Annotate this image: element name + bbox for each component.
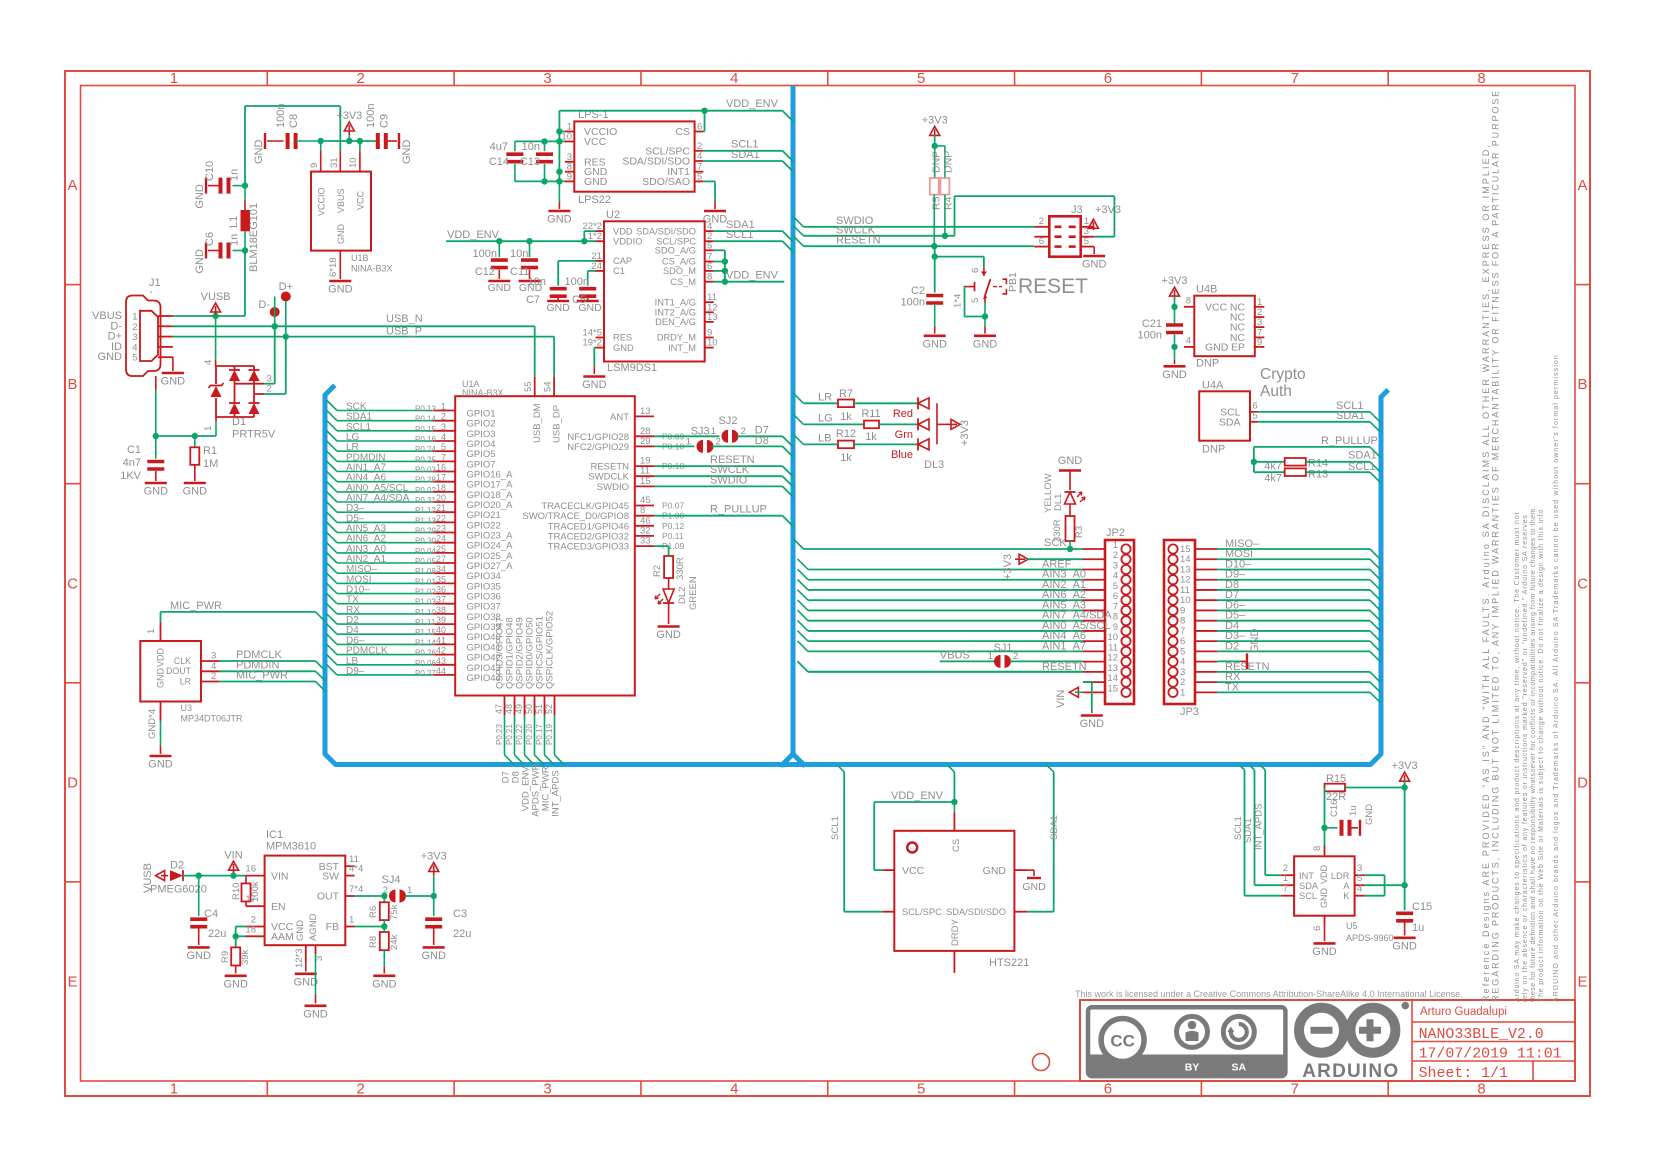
svg-text:R12: R12 <box>836 428 856 440</box>
svg-text:10n: 10n <box>510 248 528 260</box>
svg-text:7*4: 7*4 <box>349 884 363 895</box>
connector JP2 <box>1105 540 1134 704</box>
svg-text:D+: D+ <box>279 281 293 293</box>
svg-text:Crypto: Crypto <box>1260 366 1306 383</box>
U5 ground pin <box>1324 916 1326 926</box>
svg-text:GND: GND <box>1162 369 1187 381</box>
JP3 pin 6 <box>1168 637 1177 646</box>
svg-text:INT_M: INT_M <box>668 343 696 353</box>
svg-text:USB_P: USB_P <box>386 326 422 338</box>
svg-text:SCK: SCK <box>1044 537 1067 549</box>
resistor R2 330R <box>664 556 673 578</box>
svg-text:R1: R1 <box>203 445 217 457</box>
IC HTS221 humidity sensor <box>894 831 1014 951</box>
capacitor C13 10n <box>544 141 546 151</box>
wire VBUS from J1 <box>173 315 245 317</box>
svg-text:1k: 1k <box>840 452 852 464</box>
svg-text:100k: 100k <box>250 881 261 902</box>
svg-text:1: 1 <box>407 885 412 896</box>
svg-text:EP: EP <box>1231 341 1245 353</box>
svg-text:35: 35 <box>436 574 446 584</box>
svg-text:Sheet: 1/1: Sheet: 1/1 <box>1419 1066 1508 1082</box>
resistor R1 1M <box>194 436 196 447</box>
svg-text:+3V3: +3V3 <box>1095 204 1121 216</box>
svg-text:K: K <box>1343 891 1350 901</box>
svg-text:25: 25 <box>436 544 446 554</box>
wire SCL1 from U4A <box>1258 411 1370 413</box>
pin 3 of D1 <box>235 383 265 385</box>
svg-text:2: 2 <box>267 384 272 395</box>
svg-text:1: 1 <box>203 426 214 431</box>
svg-text:44: 44 <box>436 666 446 676</box>
svg-text:P1.11: P1.11 <box>415 618 436 627</box>
svg-text:SCL/SPC: SCL/SPC <box>902 907 942 917</box>
svg-text:APDS-9960: APDS-9960 <box>1346 933 1394 943</box>
svg-text:2: 2 <box>1013 651 1018 662</box>
wire R_PULLUP from U1A <box>654 515 783 517</box>
svg-text:SDO_A/G: SDO_A/G <box>655 246 696 256</box>
svg-text:2: 2 <box>741 426 746 437</box>
svg-text:1n: 1n <box>229 169 241 181</box>
wire JP3 pin4 to ground <box>1217 660 1240 662</box>
JP3 pin 9 <box>1168 606 1177 615</box>
svg-text:DRDY: DRDY <box>950 918 961 946</box>
wire D+ to D1 pin2 <box>285 301 287 337</box>
svg-text:P1.08: P1.08 <box>415 567 436 576</box>
svg-text:16: 16 <box>436 463 446 473</box>
svg-text:VDD_ENV: VDD_ENV <box>726 270 779 282</box>
+3V3 into JP2 pin2 <box>1019 554 1028 564</box>
svg-text:C6: C6 <box>204 232 216 246</box>
svg-text:VDD: VDD <box>156 647 166 667</box>
wire LG to R11 <box>793 414 804 425</box>
LED DL3 red <box>918 398 929 409</box>
svg-text:SWDIO: SWDIO <box>710 474 748 486</box>
svg-text:GND: GND <box>401 140 413 165</box>
VIN power arrow <box>233 871 235 876</box>
svg-text:P0.28: P0.28 <box>415 476 436 485</box>
svg-text:P0.11: P0.11 <box>662 531 684 541</box>
svg-text:VCC: VCC <box>356 190 366 210</box>
svg-text:21: 21 <box>436 503 446 513</box>
bus main <box>325 89 1387 765</box>
wire SDA1 from U4A <box>1258 421 1370 423</box>
svg-text:4: 4 <box>441 432 446 442</box>
svg-text:J3: J3 <box>1071 204 1083 216</box>
VUSB arrow <box>156 871 165 881</box>
svg-text:GND: GND <box>1249 629 1261 654</box>
svg-text:SDA1: SDA1 <box>1243 818 1254 843</box>
svg-text:MIC_PWR: MIC_PWR <box>236 670 288 682</box>
svg-text:52: 52 <box>544 704 554 714</box>
svg-text:GND: GND <box>223 978 248 990</box>
wire R_PULLUP <box>1254 446 1370 448</box>
svg-text:VCC: VCC <box>584 136 607 148</box>
JP3 pin 15 <box>1168 544 1177 553</box>
svg-text:1: 1 <box>349 915 354 926</box>
wire SCL1 to HTS <box>837 765 844 772</box>
svg-text:12*3: 12*3 <box>294 948 305 968</box>
svg-text:VDD: VDD <box>613 226 633 236</box>
svg-text:22u: 22u <box>453 928 471 940</box>
svg-text:54: 54 <box>543 381 554 392</box>
connector J3 SWD header <box>1049 216 1080 256</box>
svg-text:NINA-B3X: NINA-B3X <box>462 388 504 398</box>
svg-text:SJ3: SJ3 <box>691 426 710 438</box>
svg-text:GND: GND <box>186 950 211 962</box>
svg-text:SCL1: SCL1 <box>726 229 754 241</box>
svg-text:100n: 100n <box>565 276 589 288</box>
svg-text:A: A <box>67 177 77 194</box>
svg-text:GND*4: GND*4 <box>147 709 158 739</box>
svg-text:1: 1 <box>1283 873 1288 884</box>
svg-text:100n: 100n <box>473 248 497 260</box>
svg-text:3: 3 <box>543 70 551 87</box>
U1A left pins and wires <box>433 410 455 412</box>
svg-text:4: 4 <box>1357 884 1362 895</box>
svg-text:2: 2 <box>716 437 721 448</box>
svg-text:15: 15 <box>640 476 651 487</box>
svg-text:7: 7 <box>1291 1081 1299 1098</box>
svg-text:1u: 1u <box>1348 805 1359 816</box>
svg-text:P0.16: P0.16 <box>415 435 436 444</box>
svg-text:P0.04: P0.04 <box>415 547 436 556</box>
svg-text:P0.19: P0.19 <box>545 724 554 745</box>
svg-text:SW: SW <box>322 870 339 882</box>
wire JP2 pin13 RESETN <box>808 671 1083 673</box>
svg-text:P0.13: P0.13 <box>415 405 436 414</box>
svg-text:JP3: JP3 <box>1180 706 1199 718</box>
svg-text:GND: GND <box>336 224 346 245</box>
svg-text:19*2: 19*2 <box>582 338 602 349</box>
wire LR to R7 <box>793 393 804 404</box>
svg-text:5: 5 <box>917 1081 925 1098</box>
svg-text:5: 5 <box>441 442 446 452</box>
svg-text:GND: GND <box>1022 881 1046 893</box>
svg-text:5: 5 <box>1084 236 1089 247</box>
svg-text:D: D <box>67 774 78 791</box>
svg-text:C2: C2 <box>911 285 925 297</box>
svg-text:VCCIO: VCCIO <box>317 187 327 216</box>
svg-text:IC1: IC1 <box>266 829 283 841</box>
IC LPS22 pressure sensor <box>574 121 694 191</box>
IC U4A crypto auth <box>1199 391 1250 440</box>
svg-text:SCL1: SCL1 <box>830 816 841 840</box>
IC IC1 MPM3610 regulator <box>265 856 346 946</box>
svg-text:18: 18 <box>436 483 446 493</box>
svg-text:INT1_A/G: INT1_A/G <box>655 297 696 307</box>
svg-text:6: 6 <box>1104 1081 1112 1098</box>
svg-text:34: 34 <box>436 564 446 574</box>
+3V3 from regulator <box>433 876 435 896</box>
ground under C21 <box>1174 347 1176 360</box>
svg-text:1n: 1n <box>229 234 241 246</box>
svg-text:1: 1 <box>170 70 178 87</box>
svg-text:R13: R13 <box>1308 469 1328 481</box>
svg-text:4: 4 <box>730 1081 738 1098</box>
svg-text:VBUS: VBUS <box>336 188 346 213</box>
capacitor C14 4u7 <box>514 141 516 151</box>
svg-text:P1.15: P1.15 <box>415 628 436 637</box>
svg-text:D8: D8 <box>755 435 769 447</box>
HTS DRDY pin <box>953 951 955 973</box>
VIN arrow at JP2 pin15 <box>1069 687 1078 697</box>
svg-text:C: C <box>67 575 78 592</box>
svg-text:P1.10: P1.10 <box>415 608 436 617</box>
capacitor C3 22u <box>433 896 435 916</box>
svg-text:1: 1 <box>686 437 691 448</box>
svg-text:2: 2 <box>383 885 388 896</box>
IC U3 MP34DT06JTR microphone <box>160 623 162 642</box>
svg-text:100n: 100n <box>275 104 287 128</box>
wire JP2 pin14 to ground <box>1083 681 1092 683</box>
connector J1 mini-USB <box>126 296 161 377</box>
JP2 pin 4 <box>1121 575 1130 584</box>
svg-text:+3V3: +3V3 <box>922 114 948 126</box>
svg-text:VCC: VCC <box>1205 302 1228 314</box>
ferrite L1 BLM18EG101 <box>244 251 246 274</box>
svg-text:C1: C1 <box>613 266 625 276</box>
svg-text:1M: 1M <box>203 458 218 470</box>
svg-text:VIN: VIN <box>271 870 289 882</box>
svg-text:CS_M: CS_M <box>670 277 696 287</box>
svg-text:SDO_M: SDO_M <box>663 266 696 276</box>
svg-text:49: 49 <box>514 704 524 714</box>
resistor R6 75k <box>383 896 385 902</box>
svg-text:NFC2/GPIO29: NFC2/GPIO29 <box>567 442 629 453</box>
svg-text:This work is licensed under a: This work is licensed under a Creative C… <box>1075 989 1463 999</box>
svg-text:7: 7 <box>1283 884 1288 895</box>
svg-text:USB_N: USB_N <box>386 313 423 325</box>
svg-text:P1.01: P1.01 <box>415 577 436 586</box>
IC U1A NINA-B3X module <box>455 396 635 695</box>
wire LDR K tie <box>1365 874 1385 876</box>
svg-text:GND: GND <box>613 343 634 353</box>
svg-text:EN: EN <box>271 901 286 913</box>
wire SCK to JP2 <box>793 539 804 550</box>
svg-text:GND: GND <box>144 486 169 498</box>
capacitor C21 100n <box>1174 307 1176 324</box>
svg-text:Auth: Auth <box>1260 383 1292 400</box>
svg-text:SJ1: SJ1 <box>994 642 1013 654</box>
svg-text:2: 2 <box>441 412 446 422</box>
sa circle <box>1223 1016 1254 1047</box>
svg-text:P0.29: P0.29 <box>415 527 436 536</box>
svg-text:24k: 24k <box>389 934 400 950</box>
JP3 pin 1 <box>1168 688 1177 697</box>
svg-text:LB: LB <box>818 432 831 444</box>
svg-text:R10: R10 <box>231 883 242 900</box>
svg-text:1KV: 1KV <box>120 470 141 482</box>
svg-text:C13: C13 <box>520 156 540 168</box>
svg-text:3: 3 <box>441 422 446 432</box>
wire U2 SDO/CS tie to VDD_ENV <box>714 249 725 251</box>
capacitor C1 4n7 1KV <box>155 436 157 459</box>
svg-text:SDA/SDI/SDO: SDA/SDI/SDO <box>636 226 696 236</box>
JP2 pin 14 <box>1121 678 1130 687</box>
svg-text:RESETN: RESETN <box>836 235 881 247</box>
svg-text:+3V3: +3V3 <box>1002 554 1014 580</box>
svg-text:GND: GND <box>303 1008 328 1020</box>
svg-text:75k: 75k <box>389 904 400 920</box>
svg-text:5: 5 <box>697 171 702 182</box>
svg-text:GND: GND <box>1312 946 1337 958</box>
svg-text:C4: C4 <box>204 908 218 920</box>
capacitor C4 22u <box>198 876 200 917</box>
svg-text:GND: GND <box>584 176 608 188</box>
capacitor C7 10n <box>558 260 595 262</box>
capacitor C10 1n <box>233 185 246 187</box>
wire +3V3 rail at U1B <box>320 140 378 142</box>
svg-text:39: 39 <box>436 615 446 625</box>
svg-text:DOUT: DOUT <box>166 666 192 676</box>
svg-text:LSM9DS1: LSM9DS1 <box>607 362 657 374</box>
IC U1B NINA-B3X power pins <box>311 172 371 251</box>
JP2 pin 8 <box>1121 616 1130 625</box>
svg-text:GND: GND <box>1082 259 1107 271</box>
svg-text:VDD: VDD <box>1319 864 1329 884</box>
jumper SJ3 <box>654 445 695 447</box>
svg-text:8: 8 <box>1186 296 1191 307</box>
wire SDA1 from LPS <box>703 160 782 162</box>
cc circle <box>1101 1019 1144 1062</box>
svg-text:6: 6 <box>1104 70 1112 87</box>
svg-text:+3V3: +3V3 <box>421 851 447 863</box>
svg-text:SDA: SDA <box>1299 881 1319 891</box>
testpoint D+ <box>281 292 291 302</box>
svg-text:R6: R6 <box>368 906 379 918</box>
svg-text:GND: GND <box>328 284 353 296</box>
svg-text:GND: GND <box>194 249 206 274</box>
wire VCC AAM tie <box>236 926 246 928</box>
svg-text:100n: 100n <box>1138 330 1162 342</box>
svg-text:7: 7 <box>441 452 446 462</box>
svg-text:U4A: U4A <box>1202 379 1224 391</box>
U1A right pins <box>635 415 654 417</box>
LED DL1 YELLOW <box>1065 492 1076 504</box>
svg-text:GND: GND <box>194 184 206 209</box>
wire RESETN to J3 and PB1 <box>793 236 804 247</box>
svg-text:INT2_A/G: INT2_A/G <box>655 308 696 318</box>
svg-text:D-: D- <box>258 299 270 311</box>
svg-text:GND: GND <box>156 668 166 689</box>
svg-text:U1B: U1B <box>351 253 369 263</box>
JP2 pin 7 <box>1121 606 1130 615</box>
capacitor C11 10n <box>529 241 531 257</box>
svg-text:B: B <box>1577 376 1587 393</box>
svg-text:+3V3: +3V3 <box>1392 760 1418 772</box>
svg-text:Grn: Grn <box>895 429 913 441</box>
svg-text:AAM: AAM <box>271 931 294 943</box>
svg-text:SDA1: SDA1 <box>1336 410 1365 422</box>
capacitor C9 100n <box>376 133 380 149</box>
svg-text:5: 5 <box>132 353 137 364</box>
svg-text:P0.03: P0.03 <box>415 466 436 475</box>
wire R15 to C16 and U5 VDD <box>1324 788 1326 828</box>
svg-text:39k: 39k <box>240 949 251 965</box>
svg-text:SWDIO: SWDIO <box>597 482 629 493</box>
svg-text:SDA1: SDA1 <box>1348 450 1377 462</box>
svg-text:U2: U2 <box>606 209 620 221</box>
svg-text:JP2: JP2 <box>1106 527 1125 539</box>
svg-text:4k7: 4k7 <box>1264 461 1282 473</box>
wire USB_N <box>173 325 535 327</box>
svg-text:16: 16 <box>245 864 256 875</box>
svg-text:40: 40 <box>436 625 446 635</box>
capacitor C8 100n <box>267 140 284 142</box>
svg-text:1: 1 <box>988 651 993 662</box>
svg-text:A: A <box>1577 177 1587 194</box>
svg-text:6: 6 <box>970 268 981 273</box>
JP3 pin 11 <box>1168 585 1177 594</box>
svg-text:C14: C14 <box>489 156 509 168</box>
svg-text:GND: GND <box>547 214 572 226</box>
wire INT_APDS to U5 <box>1260 765 1265 770</box>
svg-text:9: 9 <box>567 171 572 182</box>
svg-text:R5: R5 <box>931 196 943 210</box>
JP3 pin 13 <box>1168 565 1177 574</box>
revision circle <box>1033 1054 1050 1071</box>
svg-text:VIN: VIN <box>224 850 242 862</box>
svg-text:VDD_ENV: VDD_ENV <box>726 98 779 110</box>
svg-text:NANO33BLE_V2.0: NANO33BLE_V2.0 <box>1419 1027 1544 1043</box>
svg-text:ANT: ANT <box>610 412 629 423</box>
svg-text:17/07/2019 11:01: 17/07/2019 11:01 <box>1419 1047 1562 1063</box>
wire VCC rail <box>515 140 565 142</box>
capacitor C16 1u <box>1325 827 1338 829</box>
svg-text:LPS22: LPS22 <box>578 194 611 206</box>
svg-text:VIN: VIN <box>1055 690 1067 708</box>
jumper SJ4 <box>389 890 395 903</box>
capacitor C15 1u <box>1404 885 1406 910</box>
svg-text:PRTR5V: PRTR5V <box>232 429 276 441</box>
svg-text:R_PULLUP: R_PULLUP <box>1321 435 1378 447</box>
wire A to +3V3 <box>1365 884 1405 886</box>
svg-text:1: 1 <box>711 426 716 437</box>
svg-text:rely on the absence or charact: rely on the absence or characteristics o… <box>1522 514 1529 1002</box>
wire U2 ground <box>594 347 595 349</box>
svg-text:SA: SA <box>1232 1062 1247 1074</box>
svg-text:VDDIO: VDDIO <box>613 236 642 246</box>
arduino logo <box>1299 1008 1395 1053</box>
svg-text:GND: GND <box>656 629 681 641</box>
svg-text:TRACED3/GPIO33: TRACED3/GPIO33 <box>548 542 629 553</box>
svg-text:1*4: 1*4 <box>953 294 964 308</box>
svg-text:6: 6 <box>697 122 702 133</box>
svg-text:100n: 100n <box>365 104 377 128</box>
svg-text:P0.15: P0.15 <box>415 425 436 434</box>
wire LB to R12 <box>793 434 804 445</box>
svg-text:C3: C3 <box>453 908 467 920</box>
svg-text:8: 8 <box>1312 846 1323 851</box>
svg-text:CAP: CAP <box>613 256 632 266</box>
svg-text:C12: C12 <box>475 266 495 278</box>
svg-text:50: 50 <box>524 704 534 714</box>
svg-text:AIN1_A7: AIN1_A7 <box>1042 640 1086 652</box>
svg-text:+3V3: +3V3 <box>1162 275 1188 287</box>
svg-text:7: 7 <box>1291 70 1299 87</box>
svg-text:9: 9 <box>309 163 320 168</box>
wire node C1/R1/D1 <box>156 435 216 437</box>
svg-text:P0.27: P0.27 <box>415 669 436 678</box>
svg-text:6: 6 <box>1312 926 1323 931</box>
svg-text:R_PULLUP: R_PULLUP <box>710 504 767 516</box>
svg-text:P0.02: P0.02 <box>415 486 436 495</box>
IC U2 LSM9DS1 IMU <box>604 221 705 361</box>
capacitor C12 100n <box>498 241 500 257</box>
svg-text:P0.20: P0.20 <box>525 724 534 745</box>
svg-text:48: 48 <box>504 704 514 714</box>
